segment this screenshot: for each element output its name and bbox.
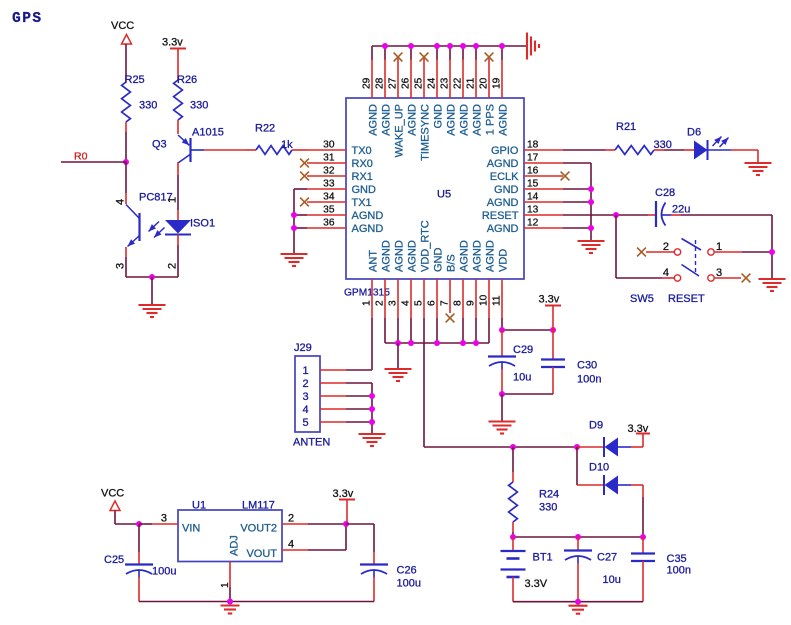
svg-text:1 PPS: 1 PPS [484,104,496,135]
svg-text:2: 2 [375,300,386,306]
svg-text:33: 33 [323,178,335,189]
svg-text:GPM1315: GPM1315 [344,288,390,299]
wire AGND bus to ground [397,343,399,368]
svg-text:16: 16 [527,165,539,176]
svg-text:3: 3 [303,391,309,403]
svg-text:3: 3 [388,300,399,306]
svg-text:AGND: AGND [380,104,392,136]
U5 pin 27 (WAKE_UP) [397,59,399,99]
svg-text:2: 2 [167,263,179,269]
svg-text:100n: 100n [667,565,691,577]
U5 pin 14 (AGND) [524,201,563,203]
svg-text:35: 35 [323,204,335,215]
wire pin35 [294,214,307,216]
regulator U1 LM117 box [178,510,282,562]
svg-text:Q3: Q3 [152,139,167,151]
svg-text:GND: GND [432,248,444,273]
svg-text:100u: 100u [397,578,421,590]
wire D6 to ground [708,149,732,151]
U5 pin 31 (RX0) [307,162,346,164]
svg-text:100n: 100n [577,374,601,386]
svg-text:5: 5 [303,417,309,429]
U5 pin 11 (VDD) [501,279,503,318]
svg-text:3: 3 [115,263,127,269]
transistor Q3 A1015 [189,138,191,162]
wire 3.3v to R26 [177,49,179,81]
svg-text:VOUT: VOUT [246,548,277,560]
svg-text:C35: C35 [667,553,687,565]
wire VDD to 3.3v [502,329,553,331]
U5 pin 4 (AGND) [410,279,412,318]
power 3.3v at D9 [642,434,644,447]
wire VOUT2 to C26 [346,523,374,525]
wire C28 to right rail [681,214,772,216]
svg-text:B/S: B/S [445,254,457,272]
U5 pin 12 (AGND) [524,227,563,229]
svg-text:C28: C28 [655,187,675,199]
svg-text:C26: C26 [397,565,417,577]
svg-text:GND: GND [494,184,519,196]
svg-text:RX1: RX1 [352,171,373,183]
U5 pin 24 (GND) [436,46,438,60]
svg-text:VIN: VIN [182,523,200,535]
svg-text:R24: R24 [539,489,559,501]
svg-text:AGND: AGND [497,104,509,136]
svg-text:17: 17 [527,152,539,163]
junction VDD_RTC net [510,444,516,450]
svg-text:2: 2 [303,378,309,390]
svg-text:7: 7 [440,300,451,306]
svg-text:VDD_RTC: VDD_RTC [419,220,431,272]
J29 pin 2 [320,382,346,384]
svg-text:GND: GND [432,104,444,129]
U5 pin 3 (AGND) [397,279,399,318]
svg-text:10: 10 [479,294,490,306]
svg-text:LM117: LM117 [242,500,275,512]
battery bus top [513,536,643,538]
svg-text:3: 3 [161,513,167,525]
resistor R26 [174,80,183,120]
U5 pin 30 (TX0) [307,149,346,151]
svg-text:VOUT2: VOUT2 [240,523,277,535]
wire pin17 to right AGND rail [563,162,591,164]
svg-text:R26: R26 [177,74,197,86]
svg-text:BT1: BT1 [533,552,553,564]
svg-text:24: 24 [427,77,438,89]
svg-text:GPS: GPS [12,11,43,27]
junction SW5 pin1 net [769,249,775,255]
U5 pin 29 (AGND) [371,46,373,60]
svg-text:10u: 10u [513,372,531,384]
connector J29 box [295,356,320,432]
svg-text:AGND: AGND [367,104,379,136]
svg-text:ANT: ANT [367,250,379,272]
ground bottom bus [385,369,412,381]
U5 pin 7 (B/S) [449,279,451,313]
ISO1 pin 4 [125,162,127,193]
top GND bus wire [372,45,527,47]
U1 pin 3 VIN [152,523,178,525]
svg-text:30: 30 [323,139,335,150]
wire Q3 base to R22 [191,149,204,151]
svg-text:ECLK: ECLK [490,171,519,183]
U5 pin 13 (RESET) [524,214,563,216]
svg-text:36: 36 [323,217,335,228]
wire pin drop to AGND bus [410,318,412,343]
wire VDD_RTC net [423,318,425,447]
diode D10 [577,484,604,486]
svg-text:AGND: AGND [458,104,470,136]
no-connect X pin 31 [300,159,309,168]
svg-text:1: 1 [220,582,231,588]
U5 pin 6 (GND) [436,279,438,318]
svg-text:12: 12 [527,217,539,228]
ISO1 light arrows [149,222,160,232]
svg-text:RX0: RX0 [352,158,373,170]
svg-text:R25: R25 [125,74,145,86]
svg-text:2: 2 [288,513,294,525]
svg-text:U5: U5 [437,189,451,201]
wire R21 to D6 [664,149,684,151]
wire pin drop to AGND bus [488,318,490,343]
capacitor C27 [577,537,579,550]
svg-text:5: 5 [414,300,425,306]
U5 pin 18 (GPIO) [524,149,563,151]
svg-text:10u: 10u [603,574,621,586]
U5 pin 25 (TIMESYNC) [423,59,425,99]
wire J29 pin3 [346,395,372,397]
wire VCC to VIN [114,511,116,525]
wire R25 to node R0 [125,132,127,162]
ground right rail [578,241,605,253]
U5 pin 33 (GND) [307,188,346,190]
wire pin36 [294,227,307,229]
svg-text:11: 11 [492,295,503,306]
wire pin drop to AGND bus [397,318,399,343]
svg-text:3.3v: 3.3v [162,37,183,49]
wire J29 pin5 [346,421,372,423]
svg-text:ADJ: ADJ [229,535,241,556]
IC U5 box [346,98,524,279]
no-connect X pin 32 [300,172,309,181]
U5 pin 9 (AGND) [475,279,477,318]
wire to ground [151,277,153,304]
svg-text:1: 1 [362,300,373,306]
svg-text:AGND: AGND [380,240,392,272]
svg-text:AGND: AGND [471,240,483,272]
ground U1 [221,606,240,614]
wire pin11 VDD [501,318,503,330]
svg-text:AGND: AGND [352,210,384,222]
svg-text:15: 15 [527,178,539,189]
svg-text:23: 23 [440,77,451,89]
svg-text:ANTEN: ANTEN [293,437,330,449]
wire Q3 collector [177,162,179,175]
svg-text:GPIO: GPIO [491,145,519,157]
svg-text:19: 19 [492,77,503,89]
wire pin15 [563,188,591,190]
wire J29 pin4 [346,408,372,410]
svg-text:29: 29 [362,77,373,89]
wire pin14 [563,201,591,203]
J29 pin 4 [320,408,346,410]
wire pin drop to AGND bus [436,318,438,343]
svg-text:GND: GND [352,184,377,196]
svg-text:9: 9 [466,300,477,306]
svg-text:R22: R22 [255,123,275,135]
svg-text:AGND: AGND [471,104,483,136]
wire C30 to C29 gnd [502,393,553,395]
wire pin12 [563,227,591,229]
svg-text:1: 1 [303,365,309,377]
svg-text:26: 26 [401,77,412,89]
ground battery [569,606,588,614]
svg-text:TX1: TX1 [352,197,372,209]
U5 pin 10 (AGND) [488,279,490,318]
svg-text:3.3v: 3.3v [628,423,649,435]
switch SW5 [662,277,674,279]
wire D10 to battery bus [642,485,644,497]
ISO1 bottom wire [126,276,178,278]
junction VOUT2 node [343,521,349,527]
svg-text:C29: C29 [513,344,533,356]
svg-text:20: 20 [479,77,490,89]
resistor R21 [605,149,615,151]
svg-text:8: 8 [453,300,464,306]
svg-text:2: 2 [663,241,669,253]
svg-text:1k: 1k [281,139,293,151]
resistor R25 [125,77,127,82]
resistor R24 [512,447,514,472]
svg-text:4: 4 [303,404,309,416]
svg-text:VCC: VCC [111,20,134,32]
ground top-right [527,33,539,60]
U5 pin 36 (AGND) [307,227,346,229]
svg-text:AGND: AGND [445,104,457,136]
ground ISO1 [139,305,166,317]
diode D9 [577,446,604,448]
U5 pin 8 (AGND) [462,279,464,318]
wire J29 pin2 rail [346,382,372,384]
no-connect X pin 16 [561,172,570,181]
svg-text:25: 25 [414,77,425,89]
svg-text:1: 1 [167,197,179,203]
U5 pin 23 (AGND) [449,46,451,60]
ISO1 pin 3 [125,247,127,257]
ISO1 LED [165,220,191,234]
svg-text:13: 13 [527,204,539,215]
svg-text:31: 31 [323,152,335,163]
svg-text:AGND: AGND [406,104,418,136]
svg-text:A1015: A1015 [192,127,224,139]
svg-text:R21: R21 [616,121,636,133]
svg-text:D9: D9 [589,420,603,432]
svg-text:22: 22 [453,77,464,89]
wire to SW5 pin4 [615,215,617,278]
capacitor C28 [648,214,656,216]
battery BT1 [512,537,514,551]
wire pin18 to R21 [563,149,605,151]
svg-text:6: 6 [427,300,438,306]
U1 bottom wire [139,601,374,603]
capacitor C29 [501,330,503,356]
U5 pin 19 (AGND) [501,46,503,60]
U5 pin 17 (AGND) [524,162,563,164]
svg-text:330: 330 [539,502,557,514]
ground C29 [489,422,516,434]
svg-text:AGND: AGND [352,223,384,235]
U1 pin 4 VOUT [282,549,308,551]
svg-text:D10: D10 [589,462,609,474]
svg-text:34: 34 [323,191,335,202]
svg-text:330: 330 [139,100,157,112]
no-connect X SW5 pin3 [742,274,751,283]
svg-text:AGND: AGND [484,240,496,272]
svg-text:D6: D6 [687,127,701,139]
wire pin drop to AGND bus [384,318,386,343]
U5 pin 22 (AGND) [462,46,464,60]
node R0 [123,159,129,165]
U5 pin 35 (AGND) [307,214,346,216]
bottom AGND bus [385,342,489,344]
capacitor C26 [360,563,388,565]
svg-text:4: 4 [288,539,294,551]
ISO1 pin 2 [177,245,179,277]
wire pin drop to AGND bus [462,318,464,343]
wire U5 pin1 ANT to J29 [371,318,373,370]
svg-text:AGND: AGND [487,158,519,170]
U5 pin 15 (GND) [524,188,563,190]
U5 pin 5 (VDD_RTC) [423,279,425,318]
J29 pin 1 [320,369,346,371]
svg-text:U1: U1 [192,500,206,512]
wire pin13 RESET net [563,214,648,216]
svg-text:WAKE_UP: WAKE_UP [393,104,405,157]
ground left rail [281,254,308,266]
svg-text:TIMESYNC: TIMESYNC [419,104,431,161]
svg-text:C25: C25 [104,554,124,566]
U5 pin 34 (TX1) [307,201,346,203]
U5 pin 20 (1 PPS) [488,59,490,99]
svg-text:R0: R0 [74,151,88,163]
battery bus bottom [513,601,643,603]
svg-text:3.3V: 3.3V [525,578,548,590]
U5 pin 2 (AGND) [384,279,386,318]
ground SW5 [759,279,786,291]
wire pin33 to AGND rail [294,188,307,190]
svg-text:J29: J29 [294,342,312,354]
J29 pin 3 [320,395,346,397]
capacitor C30 [552,330,554,359]
svg-text:AGND: AGND [458,240,470,272]
U5 pin 26 (AGND) [410,46,412,60]
svg-text:TX0: TX0 [352,145,372,157]
wire R0 [61,161,126,163]
U5 pin 21 (AGND) [475,46,477,60]
svg-text:AGND: AGND [487,197,519,209]
resistor R22 [246,149,256,151]
svg-text:3.3v: 3.3v [333,488,354,500]
no-connect X pin 34 [300,198,309,207]
svg-text:4: 4 [401,300,412,306]
svg-text:1: 1 [716,241,722,253]
no-connect X SW5 pin2 [637,248,646,257]
svg-text:SW5: SW5 [630,293,654,305]
svg-text:RESET: RESET [482,210,519,222]
U1 pin 1 ADJ [229,562,231,588]
svg-text:C30: C30 [577,360,597,372]
U5 pin 32 (RX1) [307,175,346,177]
capacitor C35 [642,537,644,553]
svg-text:18: 18 [527,139,539,150]
ground D6 [745,163,772,175]
capacitor C25 [138,524,140,552]
U5 pin 16 (ECLK) [524,175,563,177]
svg-text:RESET: RESET [668,293,705,305]
AGND rail left [293,189,295,253]
svg-text:4: 4 [115,199,127,205]
wire to D10 [576,447,578,485]
svg-text:21: 21 [466,77,477,89]
svg-text:AGND: AGND [393,240,405,272]
wire pin drop to AGND bus [475,318,477,343]
svg-text:22u: 22u [672,204,690,216]
wire VCC to R25 [125,44,127,77]
svg-text:330: 330 [190,100,208,112]
LED D6 [684,149,694,151]
svg-text:32: 32 [323,165,335,176]
ISO1 phototransistor [138,213,140,241]
svg-text:4: 4 [663,267,669,279]
U5 pin 1 (ANT) [371,279,373,318]
svg-text:ISO1: ISO1 [190,218,215,230]
svg-text:C27: C27 [597,552,617,564]
svg-text:3: 3 [716,267,722,279]
U1 pin 2 VOUT2 [282,523,308,525]
wire to ground [501,394,503,421]
svg-text:VCC: VCC [101,488,124,500]
svg-text:100u: 100u [152,566,176,578]
svg-text:AGND: AGND [406,240,418,272]
svg-text:14: 14 [527,191,539,202]
svg-text:28: 28 [375,77,386,89]
U5 pin 28 (AGND) [384,46,386,60]
svg-text:3.3v: 3.3v [539,294,560,306]
J29 pin 5 [320,421,346,423]
no-connect X pin 7 [446,314,455,323]
ground J29 [359,434,386,446]
svg-text:AGND: AGND [487,223,519,235]
svg-text:VDD: VDD [497,249,509,272]
svg-text:27: 27 [388,77,399,89]
